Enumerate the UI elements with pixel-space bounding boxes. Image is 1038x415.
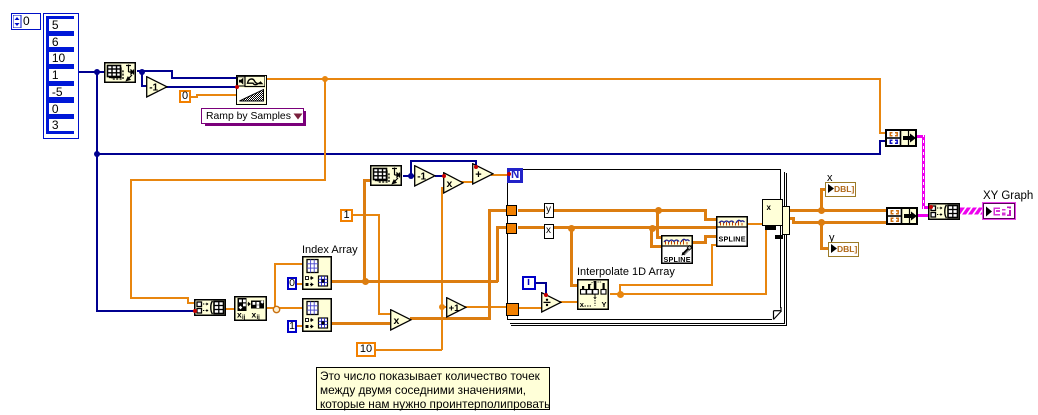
svg-text:x: x — [447, 178, 453, 190]
svg-text:SPLINE: SPLINE — [664, 255, 691, 264]
svg-text:-1: -1 — [417, 172, 426, 183]
svg-text:x: x — [393, 315, 399, 327]
svg-text:Y: Y — [602, 300, 607, 309]
svg-text:ij: ij — [242, 315, 246, 321]
svg-text:DBL]: DBL] — [834, 184, 854, 194]
svg-text:ij: ij — [257, 315, 261, 321]
svg-text:+1: +1 — [448, 303, 460, 314]
svg-text:-1: -1 — [149, 82, 158, 93]
svg-text:+: + — [475, 169, 481, 181]
svg-text:SPLINE: SPLINE — [719, 235, 746, 244]
svg-text:DBL]: DBL] — [837, 244, 857, 254]
